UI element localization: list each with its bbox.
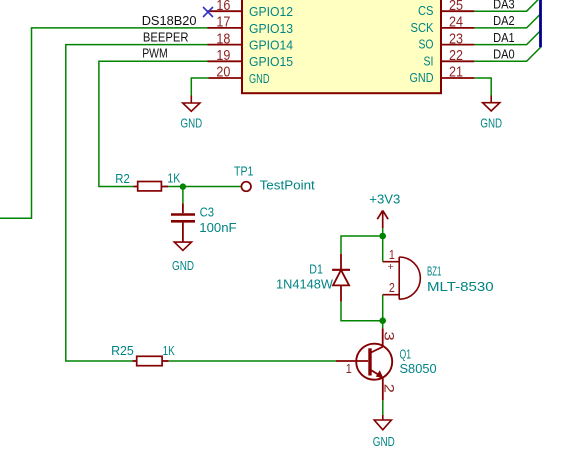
svg-text:GND: GND (373, 434, 395, 449)
svg-text:23: 23 (449, 31, 463, 47)
svg-text:GND: GND (410, 70, 434, 85)
svg-text:GND: GND (172, 258, 194, 273)
svg-text:+: + (388, 261, 394, 273)
svg-text:SI: SI (424, 53, 434, 68)
svg-text:R2: R2 (115, 171, 130, 186)
svg-text:TestPoint: TestPoint (260, 178, 316, 193)
svg-text:PWM: PWM (142, 46, 168, 61)
svg-text:TP1: TP1 (234, 163, 253, 178)
svg-text:1K: 1K (167, 170, 180, 185)
svg-text:SCK: SCK (411, 20, 434, 35)
svg-text:GND: GND (249, 71, 270, 86)
svg-text:20: 20 (216, 65, 230, 81)
svg-text:1: 1 (346, 361, 352, 376)
svg-text:21: 21 (449, 65, 463, 81)
svg-text:3: 3 (381, 332, 397, 342)
svg-text:BZ1: BZ1 (427, 264, 441, 279)
svg-text:DA2: DA2 (493, 13, 514, 28)
svg-text:1N4148W: 1N4148W (276, 277, 334, 292)
svg-text:GPIO12: GPIO12 (249, 4, 293, 19)
svg-text:1K: 1K (163, 343, 175, 358)
svg-text:2: 2 (381, 384, 397, 393)
svg-text:18: 18 (216, 31, 230, 47)
svg-text:17: 17 (216, 15, 230, 31)
svg-text:25: 25 (449, 0, 463, 14)
svg-text:D1: D1 (309, 262, 323, 277)
svg-text:100nF: 100nF (199, 220, 236, 235)
svg-text:1: 1 (389, 247, 395, 262)
svg-text:Q1: Q1 (400, 347, 412, 362)
svg-text:+3V3: +3V3 (369, 192, 400, 207)
svg-text:BEEPER: BEEPER (143, 29, 189, 44)
svg-text:GPIO14: GPIO14 (249, 38, 293, 53)
svg-text:DS18B20: DS18B20 (142, 13, 197, 28)
svg-text:GPIO13: GPIO13 (249, 21, 293, 36)
svg-text:GND: GND (181, 116, 203, 131)
svg-text:GND: GND (480, 116, 502, 131)
svg-text:2: 2 (389, 280, 395, 295)
svg-text:MLT-8530: MLT-8530 (427, 279, 494, 294)
svg-text:24: 24 (449, 15, 463, 31)
svg-text:S8050: S8050 (400, 361, 437, 376)
svg-text:C3: C3 (200, 204, 215, 219)
svg-text:DA0: DA0 (493, 47, 514, 62)
svg-text:19: 19 (216, 48, 230, 64)
svg-text:GPIO15: GPIO15 (249, 54, 293, 69)
svg-text:22: 22 (449, 48, 463, 64)
svg-text:DA3: DA3 (493, 0, 514, 12)
svg-text:DA1: DA1 (493, 30, 514, 45)
svg-text:R25: R25 (111, 343, 134, 358)
svg-text:16: 16 (216, 0, 230, 14)
svg-text:CS: CS (418, 3, 434, 18)
svg-text:SO: SO (419, 37, 434, 52)
